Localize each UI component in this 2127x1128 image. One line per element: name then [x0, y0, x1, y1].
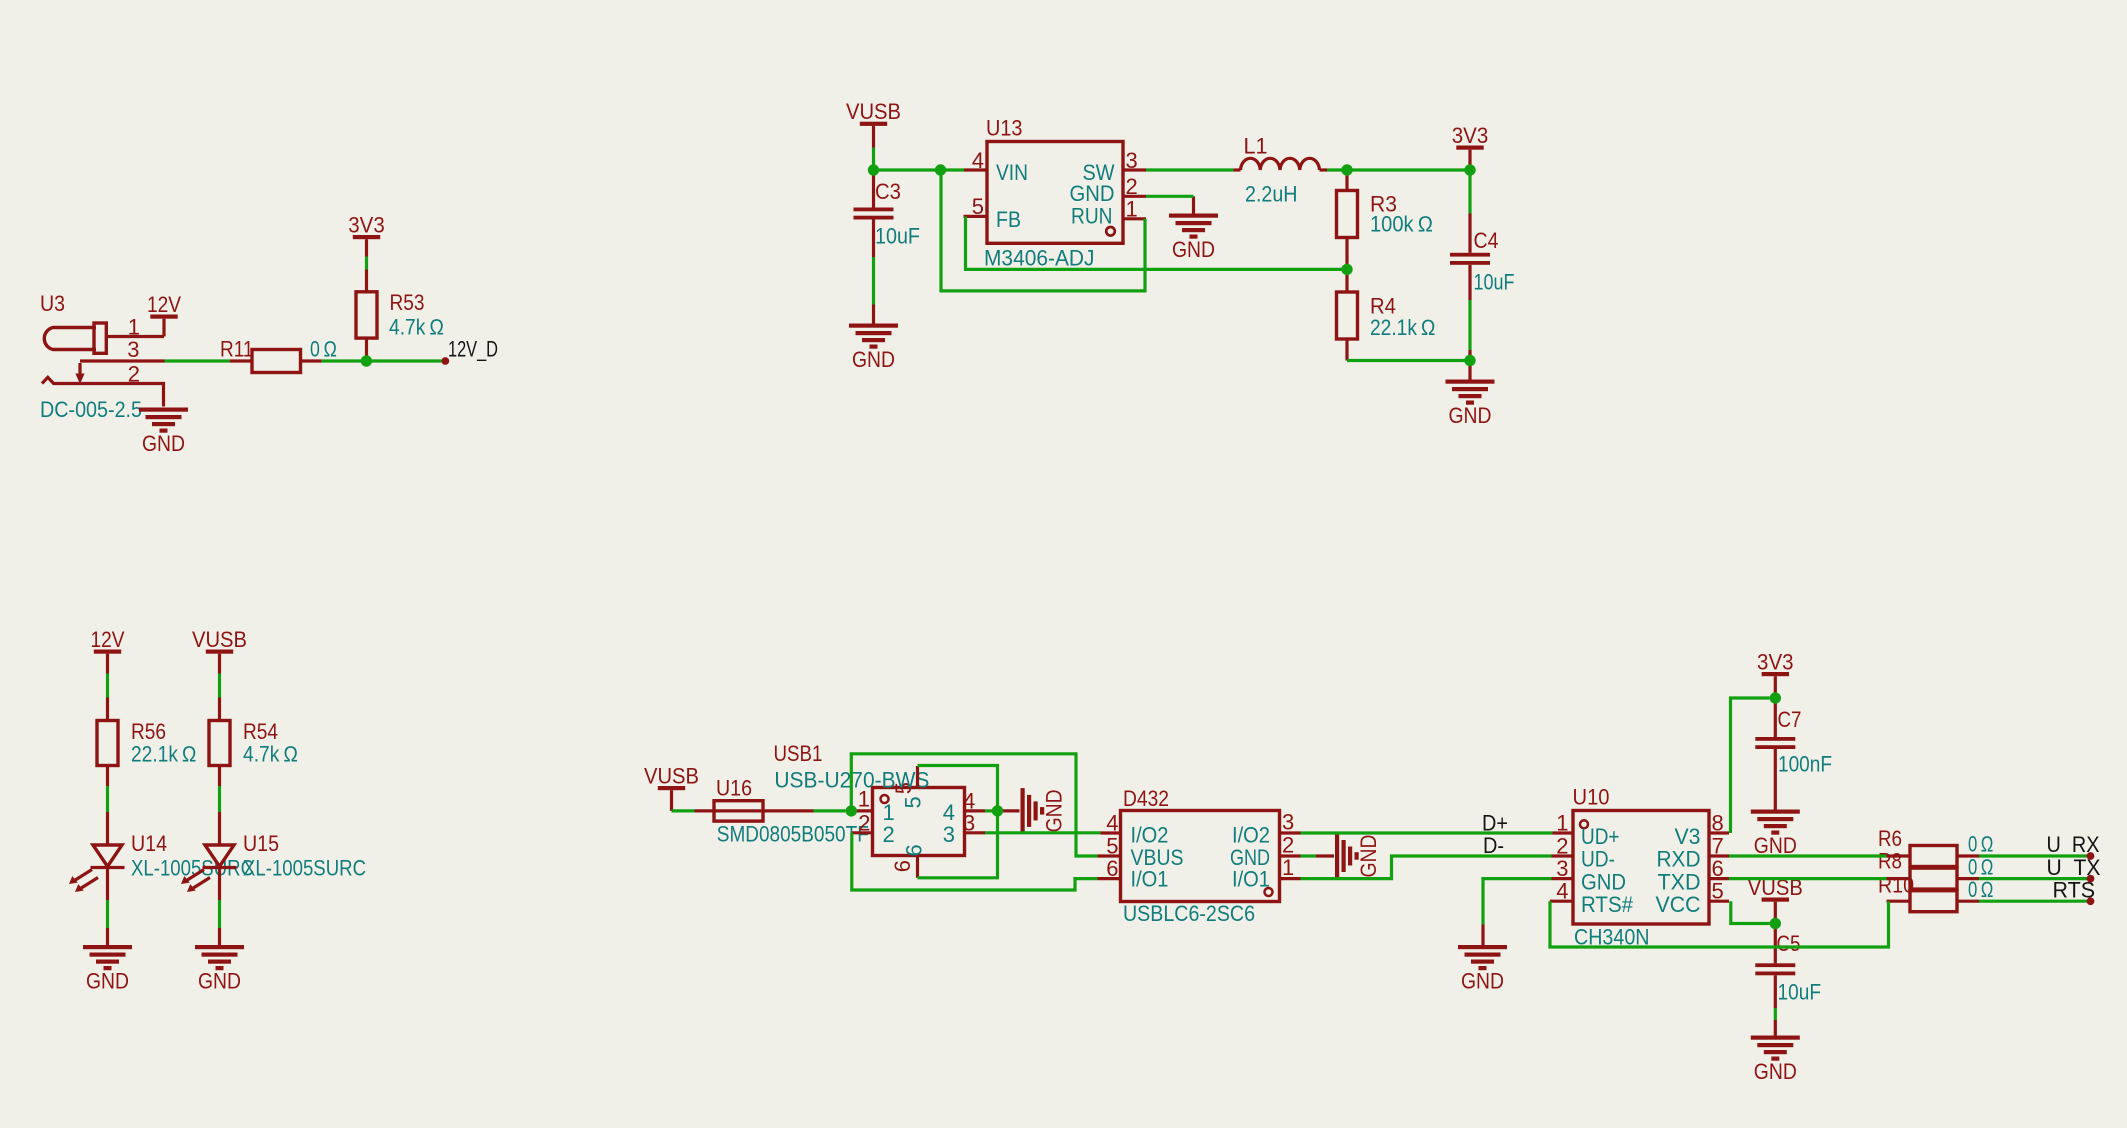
pin wire C5 bottom — [1774, 1020, 1777, 1036]
connector USB1 body — [873, 788, 965, 856]
svg-text:GND: GND — [1461, 969, 1504, 994]
svg-text:GND: GND — [86, 969, 129, 994]
svg-text:L1: L1 — [1244, 134, 1268, 159]
svg-text:10uF: 10uF — [875, 224, 920, 249]
pin wire 3V3 stem (C7) — [1774, 676, 1777, 698]
svg-text:2: 2 — [128, 362, 140, 387]
resistor R8 — [1887, 868, 1980, 889]
wire D- — [1301, 856, 1552, 879]
svg-text:2: 2 — [1282, 833, 1294, 858]
svg-text:RUN: RUN — [1071, 204, 1113, 229]
pin wire U15 bottom — [218, 928, 221, 945]
pin wire 12V stem — [106, 654, 109, 674]
svg-text:3: 3 — [1126, 148, 1138, 173]
svg-text:3: 3 — [943, 822, 955, 847]
svg-text:R56: R56 — [131, 719, 166, 744]
wire — [672, 809, 695, 812]
op-amp U13 body — [987, 142, 1123, 244]
LED arrows U15 — [181, 870, 210, 893]
inversion circle RUN (U13) — [1106, 227, 1115, 236]
wire — [1146, 168, 1234, 171]
power flag VUSB (U10) — [1748, 875, 1803, 902]
svg-text:1: 1 — [128, 315, 140, 340]
wire U_RX — [1979, 854, 2090, 857]
wire FB to divider — [966, 216, 1348, 269]
svg-text:FB: FB — [996, 207, 1021, 232]
svg-text:3: 3 — [1556, 856, 1568, 881]
svg-text:3: 3 — [127, 337, 139, 362]
svg-text:1: 1 — [1282, 855, 1294, 880]
svg-text:RTS#: RTS# — [1581, 892, 1634, 917]
wire — [874, 168, 965, 171]
svg-text:R8: R8 — [1878, 849, 1902, 874]
resistor R4 — [1337, 269, 1358, 360]
svg-text:R53: R53 — [390, 290, 425, 315]
junction — [1341, 264, 1352, 275]
svg-text:100k Ω: 100k Ω — [1370, 212, 1433, 237]
svg-text:1: 1 — [858, 786, 870, 811]
power flag 12V — [147, 292, 181, 319]
svg-text:GND: GND — [1754, 1059, 1797, 1084]
pin 5 VCC (U10) — [1709, 900, 1729, 903]
junction — [361, 355, 372, 366]
svg-text:U15: U15 — [243, 831, 279, 856]
LED arrows U14 — [69, 870, 98, 893]
wire VCC to VUSB — [1731, 901, 1770, 923]
wire — [1468, 170, 1471, 214]
svg-text:VIN: VIN — [996, 160, 1028, 185]
svg-text:1: 1 — [1556, 811, 1568, 836]
ground (U15) — [195, 945, 244, 994]
svg-text:I/O1: I/O1 — [1232, 867, 1270, 892]
wire pin4 to ground — [985, 809, 998, 812]
wire D432 GND — [1301, 854, 1317, 857]
svg-text:VUSB: VUSB — [644, 764, 699, 789]
wire — [106, 786, 109, 812]
svg-text:C5: C5 — [1777, 931, 1801, 956]
power flag VUSB (USB input) — [644, 764, 699, 791]
svg-text:RXD: RXD — [1657, 847, 1701, 872]
svg-text:4.7k Ω: 4.7k Ω — [389, 315, 444, 340]
wire — [872, 148, 875, 171]
svg-text:USBLC6-2SC6: USBLC6-2SC6 — [1123, 901, 1255, 926]
wire RTS — [1979, 900, 2090, 903]
wire — [322, 359, 442, 362]
pin 3 (USB1) — [965, 831, 986, 834]
wire — [218, 674, 221, 698]
pin 1 I/O1 (D432) — [1280, 877, 1301, 880]
svg-text:3V3: 3V3 — [1452, 123, 1489, 148]
pin wire GND stem (U13) — [1192, 196, 1195, 213]
ground (U13 pin 2) — [1169, 214, 1218, 263]
pin 3 GND (U10) — [1552, 877, 1574, 880]
resistor R53 — [356, 270, 377, 362]
fuse U16 — [695, 801, 814, 821]
svg-text:2: 2 — [1556, 834, 1568, 859]
svg-text:3: 3 — [1282, 810, 1294, 835]
wire RUN to VIN — [941, 170, 1145, 291]
pin wire R53 top — [365, 239, 368, 256]
junction — [992, 805, 1003, 816]
resistor R3 — [1337, 170, 1358, 269]
resistor R6 — [1887, 846, 1980, 867]
svg-text:R10: R10 — [1878, 873, 1914, 898]
svg-text:I/O2: I/O2 — [1232, 823, 1270, 848]
svg-text:22.1k Ω: 22.1k Ω — [131, 742, 197, 767]
LED U15 — [203, 812, 237, 900]
pin 1 RUN (U13) — [1123, 217, 1146, 220]
ground (U10 pin 3) — [1458, 945, 1507, 994]
wire V3 to 3V3 — [1731, 698, 1770, 833]
svg-text:6: 6 — [1712, 856, 1724, 881]
pin 5 VBUS (D432) — [1098, 854, 1121, 857]
resistor R54 — [209, 698, 230, 787]
svg-text:5: 5 — [901, 796, 926, 808]
svg-text:GND: GND — [1356, 835, 1381, 878]
ic U10 body — [1573, 811, 1709, 925]
svg-text:GND: GND — [852, 347, 895, 372]
power flag 3V3 — [1452, 123, 1489, 150]
svg-text:5: 5 — [1106, 834, 1118, 859]
svg-text:GND: GND — [1754, 833, 1797, 858]
pin 6 I/O1 (D432) — [1098, 877, 1121, 880]
pin 1 UD+ (U10) — [1553, 831, 1574, 834]
pin 2 GND (U13) — [1123, 195, 1146, 198]
capacitor C4 — [1450, 214, 1490, 301]
wire U10 GND — [1483, 879, 1552, 925]
svg-text:7: 7 — [1712, 834, 1724, 859]
svg-text:GND: GND — [1581, 870, 1626, 895]
wire C5 to ground — [1774, 1008, 1777, 1020]
svg-text:GND: GND — [198, 969, 241, 994]
wire RTS# to R10 — [1550, 901, 1889, 947]
wire USB D- to D432 — [852, 833, 1098, 890]
pin 8 V3 (U10) — [1709, 831, 1729, 834]
svg-text:0 Ω: 0 Ω — [1968, 877, 1994, 902]
wire — [1468, 166, 1471, 170]
wire — [1468, 300, 1471, 350]
wire — [106, 900, 109, 928]
svg-text:R11: R11 — [220, 337, 254, 362]
wire VBUS to D432 — [851, 754, 1097, 856]
ground (D432) — [1335, 833, 1381, 879]
pin 5 (USB1) — [916, 766, 919, 788]
pin 2 (USB1) — [852, 831, 873, 834]
ic D432 body — [1121, 811, 1280, 902]
svg-text:D-: D- — [1483, 833, 1504, 858]
ground (C4) — [1446, 380, 1495, 429]
resistor R56 — [97, 698, 118, 787]
svg-text:2.2uH: 2.2uH — [1245, 182, 1298, 207]
wire — [1327, 168, 1470, 171]
svg-text:U14: U14 — [131, 831, 167, 856]
wire RXD to R6 — [1729, 854, 1887, 857]
pin wire 3V3 stem — [1468, 150, 1471, 166]
capacitor C5 — [1755, 924, 1795, 1009]
pin wire U14 bottom — [106, 928, 109, 945]
junction — [846, 805, 857, 816]
svg-text:0 Ω: 0 Ω — [1968, 832, 1994, 857]
svg-text:6: 6 — [902, 844, 927, 856]
svg-text:GND: GND — [1449, 403, 1492, 428]
pin wire GND stem (U10 pin3) — [1481, 925, 1484, 946]
svg-text:5: 5 — [1712, 879, 1724, 904]
wire D+ — [1301, 831, 1553, 834]
node 12V_D terminal — [441, 357, 449, 365]
svg-text:12V_D: 12V_D — [448, 337, 498, 362]
wire — [872, 257, 875, 305]
svg-text:V3: V3 — [1675, 824, 1701, 849]
wire U_TX — [1979, 877, 2090, 880]
ground (U3) — [139, 408, 188, 457]
inductor L1 — [1234, 158, 1328, 170]
svg-text:I/O1: I/O1 — [1131, 867, 1169, 892]
svg-text:6: 6 — [1106, 856, 1118, 881]
ground (U14) — [83, 945, 132, 994]
svg-text:4: 4 — [972, 148, 984, 173]
power flag VUSB — [846, 99, 901, 126]
svg-text:1: 1 — [1126, 197, 1138, 222]
pin wire C3 bottom — [872, 305, 875, 324]
wire — [365, 257, 368, 270]
svg-text:4: 4 — [1106, 811, 1118, 836]
wire — [1146, 195, 1194, 198]
pin 3 I/O2 (D432) — [1280, 831, 1301, 834]
svg-text:C7: C7 — [1778, 707, 1802, 732]
pin wire VUSB stem (USB) — [670, 790, 673, 811]
junction — [1464, 355, 1475, 366]
junction — [1770, 692, 1781, 703]
svg-text:22.1k Ω: 22.1k Ω — [1370, 315, 1436, 340]
wire shield loop (USB1) — [918, 766, 998, 878]
resistor R10 — [1887, 891, 1980, 912]
junction — [935, 164, 946, 175]
pin 6 TXD (U10) — [1709, 877, 1729, 880]
junction — [868, 164, 879, 175]
pin 3 SW (U13) — [1123, 168, 1146, 171]
pin wire GND stem (C4) — [1468, 361, 1471, 380]
power flag VUSB (LED branch) — [192, 627, 247, 654]
power jack U3 — [42, 319, 165, 407]
wire — [165, 359, 230, 362]
svg-text:UD-: UD- — [1581, 847, 1615, 872]
svg-text:3V3: 3V3 — [1757, 650, 1794, 675]
svg-text:C4: C4 — [1474, 228, 1499, 253]
capacitor C7 — [1755, 698, 1795, 810]
pin 4 (USB1) — [965, 809, 986, 812]
svg-text:4.7k Ω: 4.7k Ω — [243, 742, 298, 767]
pin wire VUSB stem — [218, 654, 221, 674]
svg-text:VUSB: VUSB — [846, 99, 901, 124]
ground (C5) — [1751, 1036, 1800, 1085]
svg-text:U10: U10 — [1573, 785, 1610, 810]
svg-text:GND: GND — [1070, 181, 1115, 206]
pin 6 (USB1) — [916, 856, 919, 878]
svg-text:D432: D432 — [1123, 786, 1169, 811]
svg-text:TXD: TXD — [1658, 870, 1701, 895]
junction — [1770, 918, 1781, 929]
svg-text:GND: GND — [1042, 789, 1067, 832]
svg-text:USB1: USB1 — [774, 741, 823, 766]
pin wire GND stem (USB1) — [998, 809, 1020, 812]
LED U14 — [91, 812, 125, 900]
power flag 3V3 (U10) — [1757, 650, 1794, 677]
svg-text:SMD0805B050TF: SMD0805B050TF — [717, 822, 869, 847]
pin wire GND stem (D432) — [1316, 854, 1334, 857]
svg-text:12V: 12V — [147, 292, 181, 317]
pin wire VUSB stem (C5) — [1774, 902, 1777, 924]
wire — [814, 809, 846, 812]
svg-text:GND: GND — [142, 431, 185, 456]
svg-text:10uF: 10uF — [1474, 270, 1515, 295]
svg-text:U3: U3 — [40, 291, 65, 316]
node U_TX terminal — [2087, 875, 2095, 883]
svg-text:GND: GND — [1172, 237, 1215, 262]
svg-text:2: 2 — [1126, 174, 1138, 199]
svg-text:I/O2: I/O2 — [1131, 823, 1169, 848]
pin wire C4 bottom — [1468, 350, 1471, 361]
svg-text:2: 2 — [858, 810, 870, 835]
wire — [218, 900, 221, 928]
svg-text:VCC: VCC — [1656, 892, 1701, 917]
wire TXD to R8 — [1729, 877, 1887, 880]
ground (USB1) — [1021, 788, 1067, 834]
pin 4 VIN (U13) — [964, 168, 987, 171]
wire USB D+ to D432 — [985, 831, 1101, 834]
node RTS terminal — [2087, 897, 2095, 905]
pin 4 I/O2 (D432) — [1101, 831, 1121, 834]
svg-text:100nF: 100nF — [1778, 752, 1832, 777]
resistor R11 — [230, 350, 322, 373]
pin 5 FB (U13) — [964, 215, 988, 218]
svg-text:R54: R54 — [243, 719, 278, 744]
power flag 3V3 — [348, 213, 385, 240]
svg-text:3V3: 3V3 — [348, 213, 385, 238]
wire — [1347, 359, 1470, 362]
power flag 12V (LED branch) — [91, 627, 125, 654]
pin 1 (USB1) — [851, 809, 872, 812]
pin 4 RTS# (U10) — [1550, 900, 1573, 903]
svg-text:4: 4 — [1556, 879, 1568, 904]
svg-text:R6: R6 — [1878, 826, 1902, 851]
svg-text:C3: C3 — [875, 179, 901, 204]
ground (C7) — [1751, 810, 1800, 859]
svg-text:XL-1005SURC: XL-1005SURC — [243, 856, 366, 881]
svg-text:3: 3 — [963, 810, 975, 835]
svg-text:M3406-ADJ: M3406-ADJ — [984, 246, 1095, 271]
wire — [106, 674, 109, 698]
svg-text:0 Ω: 0 Ω — [1968, 854, 1994, 879]
svg-text:U13: U13 — [986, 116, 1023, 141]
svg-text:5: 5 — [972, 194, 984, 219]
svg-text:2: 2 — [883, 822, 895, 847]
svg-text:10uF: 10uF — [1778, 980, 1822, 1005]
node U_RX terminal — [2087, 852, 2095, 860]
capacitor C3 — [854, 170, 894, 257]
svg-text:DC-005-2.5: DC-005-2.5 — [40, 397, 142, 422]
svg-text:0 Ω: 0 Ω — [310, 337, 337, 362]
junction — [1341, 164, 1352, 175]
junction — [1464, 164, 1475, 175]
svg-text:12V: 12V — [91, 627, 125, 652]
wire — [218, 786, 221, 812]
svg-text:U16: U16 — [716, 776, 752, 801]
pin 2 UD- (U10) — [1552, 854, 1574, 857]
svg-text:UD+: UD+ — [1581, 824, 1620, 849]
svg-text:6: 6 — [890, 860, 915, 872]
svg-text:8: 8 — [1712, 811, 1724, 836]
pin 2 GND (D432) — [1280, 854, 1301, 857]
pin wire VUSB stem — [872, 126, 875, 148]
switch arrow U3 — [75, 363, 84, 384]
ground (C3) — [849, 324, 898, 373]
svg-text:VUSB: VUSB — [192, 627, 247, 652]
pin 7 RXD (U10) — [1709, 854, 1729, 857]
